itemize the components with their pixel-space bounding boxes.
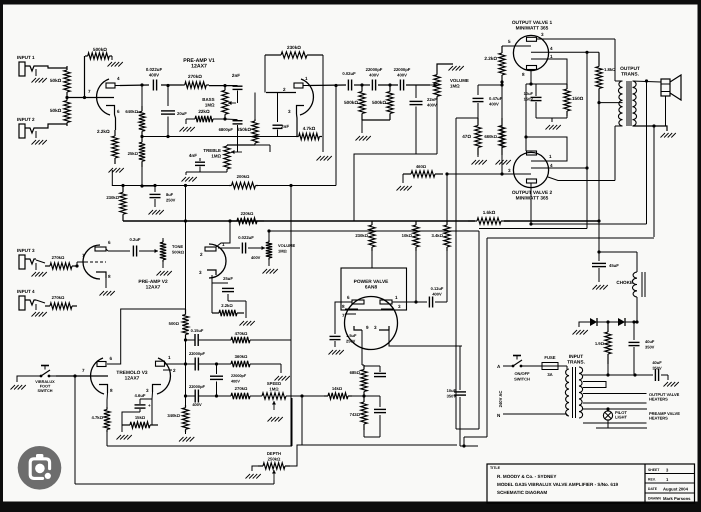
- svg-text:1: 1: [168, 355, 171, 360]
- wire osc plate feed: [107, 309, 186, 364]
- wire vol2 top: [267, 229, 270, 240]
- wire cc1: [354, 83, 370, 86]
- wire 456 corner: [456, 118, 478, 429]
- V1a plate: [106, 83, 115, 88]
- wire A stub: [502, 366, 504, 372]
- output valve 2 title: [512, 190, 553, 201]
- resistor 230k pv: [355, 221, 375, 251]
- V1b plate lead: [303, 85, 308, 87]
- wire cc3: [406, 84, 430, 86]
- node 364 398: [362, 394, 365, 397]
- svg-text:4nF: 4nF: [189, 153, 197, 158]
- pot VOLUME 1M main: [430, 72, 469, 99]
- wire 477 to 502: [478, 83, 504, 86]
- svg-text:2: 2: [173, 368, 176, 373]
- svg-text:0.15uF: 0.15uF: [191, 328, 204, 333]
- ground 340k: [179, 432, 194, 442]
- svg-text:3: 3: [508, 168, 511, 173]
- wire cap pv c1 top: [362, 346, 380, 372]
- wire in3 to grid: [77, 262, 88, 266]
- mains A terminal: [497, 364, 506, 369]
- wire V3 loop bottom: [107, 398, 292, 446]
- wire 416 down: [415, 251, 417, 302]
- wire cc2: [378, 83, 398, 86]
- V5 pin 4 label: [550, 163, 553, 168]
- svg-text:400V: 400V: [427, 102, 437, 107]
- svg-text:4: 4: [117, 76, 120, 81]
- resistor 500k shuntA: [344, 85, 365, 120]
- svg-text:14kΩ: 14kΩ: [332, 386, 343, 391]
- fuse F1: [528, 355, 558, 377]
- svg-text:350V: 350V: [645, 344, 655, 349]
- resistor 340k v3: [167, 405, 188, 432]
- pilot leads: [596, 407, 647, 428]
- resistor 500k feedback: [85, 47, 112, 59]
- resistor 743ohm: [350, 396, 368, 430]
- svg-text:10uF: 10uF: [447, 388, 457, 393]
- resistor 200k bus: [229, 174, 258, 189]
- speaker SP1: [661, 75, 681, 100]
- bottom black border bar: [0, 502, 701, 512]
- triode V2b envelope: [209, 244, 226, 278]
- svg-text:0.022uF: 0.022uF: [146, 67, 163, 72]
- output transformer label: [620, 66, 640, 77]
- svg-text:360kΩ: 360kΩ: [235, 354, 248, 359]
- resistor 685ohm: [350, 365, 368, 396]
- svg-text:+: +: [148, 403, 151, 408]
- svg-text:VOLUME: VOLUME: [278, 243, 295, 248]
- svg-text:640kΩ: 640kΩ: [125, 109, 138, 114]
- preamp valve heaters label: [649, 411, 680, 421]
- V4 cathode rect: [527, 66, 537, 70]
- svg-text:SWITCH: SWITCH: [38, 389, 53, 393]
- svg-text:230kΩ: 230kΩ: [355, 233, 368, 238]
- svg-text:INPUT: INPUT: [569, 354, 583, 360]
- V2b plate: [205, 247, 219, 251]
- svg-text:TONE: TONE: [172, 244, 183, 249]
- capacitor 4nF: [189, 153, 227, 172]
- title text schematic: [497, 490, 547, 495]
- node osc mid: [215, 362, 218, 365]
- svg-text:240V AC: 240V AC: [498, 391, 503, 408]
- svg-text:2.2kΩ: 2.2kΩ: [221, 303, 233, 308]
- wire y446 right: [388, 445, 530, 447]
- bus B+ main: [123, 220, 599, 222]
- vibrato foot switch: [34, 366, 56, 393]
- ground 323: [317, 137, 332, 161]
- title block outer box: [487, 464, 695, 503]
- capacitor 2nF treble: [232, 73, 243, 89]
- svg-text:3A: 3A: [547, 372, 552, 377]
- on/off label: [514, 371, 530, 381]
- title block divider: [644, 464, 646, 503]
- capacitor 20uF: [161, 84, 187, 138]
- svg-text:50kΩ: 50kΩ: [50, 108, 62, 113]
- svg-text:200kΩ: 200kΩ: [237, 174, 250, 179]
- svg-text:1: 1: [395, 295, 398, 300]
- svg-text:2: 2: [200, 252, 203, 257]
- wire cath loop: [106, 432, 108, 446]
- lens icon lens dot: [35, 464, 45, 474]
- resistor 1.9ohm ht: [595, 322, 611, 364]
- svg-text:2nF: 2nF: [232, 73, 240, 78]
- ground jack3: [30, 263, 47, 277]
- svg-text:500Ω: 500Ω: [169, 321, 180, 326]
- V5 plate rect: [527, 151, 537, 155]
- svg-text:ON/OFF: ON/OFF: [514, 371, 530, 376]
- svg-text:DRAWN: DRAWN: [648, 497, 661, 501]
- svg-text:400V: 400V: [251, 255, 261, 260]
- wire cap bottom: [536, 102, 567, 118]
- wire PV cath right: [389, 330, 462, 346]
- capacitor 0.12uF 400V: [416, 286, 447, 308]
- svg-text:0.2uF: 0.2uF: [130, 237, 141, 242]
- svg-text:10kΩ: 10kΩ: [402, 233, 413, 238]
- V2b grid: [200, 252, 209, 257]
- resistor 1.6k bus: [468, 210, 510, 224]
- svg-text:6800pF: 6800pF: [219, 127, 234, 132]
- svg-text:460Ω: 460Ω: [416, 164, 427, 169]
- wire depth wiper: [75, 480, 274, 484]
- vertical 587: [585, 52, 588, 228]
- input jack J4: [19, 296, 36, 310]
- title block rows: [645, 474, 695, 494]
- V1a cathode: [106, 106, 120, 115]
- V5 plate loop: [526, 137, 567, 161]
- V2a cathode gnd: [100, 278, 115, 296]
- date row: [648, 487, 689, 492]
- wire 340k top: [185, 396, 187, 405]
- wire PV plate L: [332, 296, 358, 334]
- choke label: [616, 280, 633, 285]
- ground 15k: [117, 425, 132, 440]
- V2b cathode: [199, 270, 216, 275]
- svg-text:0.022uF: 0.022uF: [238, 235, 254, 240]
- capacitor 0.2uF: [130, 237, 141, 257]
- nest line 1 down: [478, 231, 480, 429]
- wire nest2 bottom: [462, 437, 487, 448]
- wire pv loop right: [380, 436, 464, 438]
- wire PV cath leads: [362, 330, 384, 365]
- capacitor 22000pF t3: [186, 384, 217, 407]
- svg-text:12AX7: 12AX7: [125, 375, 140, 381]
- title text company: [497, 474, 556, 479]
- wire 685 top: [362, 364, 364, 366]
- ground below jack 1: [32, 69, 47, 83]
- capacitor pv c2: [364, 396, 386, 422]
- V2a plate: [95, 247, 108, 251]
- wire V4 pin4 right: [549, 51, 599, 54]
- V4 cathode lead: [530, 70, 532, 85]
- svg-text:6AN8: 6AN8: [365, 284, 378, 290]
- resistor 220k bus inline: [228, 211, 264, 224]
- wire V4 cath to V5 plate: [524, 84, 527, 151]
- wire OPT sec to speaker: [633, 79, 662, 82]
- power valve envelope: [345, 297, 398, 350]
- svg-text:270kΩ: 270kΩ: [52, 255, 65, 260]
- PV plate left: [347, 295, 364, 304]
- svg-text:340kΩ: 340kΩ: [167, 413, 180, 418]
- capacitor 0.022uF v2: [238, 235, 260, 260]
- svg-text:HEATERS: HEATERS: [649, 397, 668, 402]
- svg-text:500kΩ: 500kΩ: [93, 47, 107, 52]
- svg-text:August 2004: August 2004: [663, 487, 689, 492]
- wire V2b cath: [211, 275, 213, 283]
- wire osc low v: [185, 364, 187, 396]
- wire 360k gnd: [250, 364, 281, 373]
- IT primary winding: [565, 369, 569, 416]
- pot DEPTH 250k: [258, 451, 290, 480]
- wire depth right: [290, 445, 302, 466]
- svg-text:1.8kΩ: 1.8kΩ: [604, 67, 616, 72]
- svg-text:400V: 400V: [149, 72, 159, 77]
- V3a pin7: [82, 368, 85, 373]
- wire trem out: [300, 394, 324, 397]
- svg-text:400V: 400V: [489, 101, 499, 106]
- V1a cathode lead: [115, 115, 116, 131]
- capacitor 0.47uF 400V: [473, 85, 503, 118]
- diode D2: [597, 318, 625, 326]
- svg-text:250V: 250V: [346, 338, 356, 343]
- V2a grid dash: [90, 261, 106, 263]
- output valve V4 envelope: [513, 35, 548, 70]
- OPT bottom lead: [615, 125, 623, 127]
- resistor 10k pv: [402, 221, 420, 251]
- svg-text:7: 7: [88, 89, 91, 94]
- nest line 3: [479, 228, 587, 230]
- svg-text:250kΩ: 250kΩ: [268, 456, 281, 461]
- V2a cathode: [96, 272, 111, 279]
- svg-text:DEPTH: DEPTH: [267, 451, 281, 456]
- pre-amp V2 title: [138, 279, 168, 290]
- wire V5 plate to OPT: [548, 126, 615, 181]
- power valve box: [341, 268, 407, 310]
- cath loop box: [208, 283, 212, 305]
- svg-text:4.6uF: 4.6uF: [135, 393, 146, 398]
- PV plate right: [380, 295, 398, 304]
- svg-text:TRANS.: TRANS.: [621, 71, 639, 77]
- svg-text:22000pF: 22000pF: [189, 384, 206, 389]
- svg-text:6: 6: [347, 295, 350, 300]
- wire 10uF bottom: [459, 397, 461, 446]
- svg-text:400V: 400V: [231, 379, 240, 383]
- svg-text:0.47uF: 0.47uF: [489, 96, 503, 101]
- svg-text:7: 7: [342, 313, 345, 318]
- mains N terminal: [497, 413, 501, 418]
- svg-text:3: 3: [199, 270, 202, 275]
- capacitor 6800pF: [219, 119, 243, 132]
- resistor 460ohm: [403, 164, 443, 177]
- wire pvc1: [364, 366, 380, 390]
- resistor 150ohm cath: [564, 84, 584, 116]
- resistor 3.4k pv: [431, 221, 450, 251]
- mains 240V label: [498, 391, 503, 408]
- input jack J3: [19, 255, 36, 269]
- V5 cathode rect: [527, 179, 537, 183]
- wire fuse to IT: [558, 366, 567, 369]
- wire V3a cath: [106, 393, 109, 407]
- wire PV g2: [335, 313, 345, 315]
- node osc 1: [184, 338, 187, 341]
- svg-text:2.2kΩ: 2.2kΩ: [484, 56, 497, 61]
- wire cap to resistor: [161, 84, 182, 86]
- heater winding 1b: [583, 402, 647, 404]
- ground 360k: [275, 376, 290, 381]
- svg-text:250V: 250V: [166, 197, 176, 202]
- input jack J1: [19, 62, 36, 76]
- output valve heaters label: [649, 392, 680, 402]
- triode V3b envelope: [157, 358, 170, 394]
- capacitor 22nF 400V: [410, 85, 438, 111]
- V3b plate lead: [165, 363, 186, 365]
- choke winding: [632, 272, 645, 297]
- svg-text:150V: 150V: [524, 96, 534, 101]
- svg-text:400V: 400V: [192, 402, 202, 407]
- capacitor 1.5uF 250V: [330, 333, 358, 343]
- ground 45uF: [593, 268, 608, 290]
- input jack 3 label: [17, 248, 35, 253]
- wire V1a plate to cap: [120, 84, 149, 87]
- V5 grid3 bar: [513, 173, 531, 175]
- svg-text:SWITCH: SWITCH: [514, 376, 530, 381]
- PV grid2 left: [342, 313, 356, 318]
- V4 pin 5 label: [508, 39, 511, 44]
- svg-text:500kΩ: 500kΩ: [372, 100, 386, 105]
- wire 1.9 bottom: [607, 364, 609, 375]
- wire choke bottom: [636, 297, 638, 322]
- capacitor 22000pF t2: [186, 351, 217, 371]
- V1b cathode: [288, 106, 304, 115]
- svg-text:6: 6: [108, 240, 111, 245]
- svg-text:8: 8: [522, 72, 525, 77]
- V4 pin 8 label: [522, 72, 525, 77]
- OPT center tap: [599, 102, 623, 104]
- resistor 4.7k v3: [91, 407, 110, 432]
- svg-text:6: 6: [117, 109, 120, 114]
- wire V1b plate out: [308, 84, 346, 87]
- svg-text:OUTPUT VALVE 2: OUTPUT VALVE 2: [512, 190, 553, 196]
- node osc 3: [184, 394, 187, 397]
- svg-text:INPUT 2: INPUT 2: [17, 117, 35, 122]
- wire OPT sec tap down: [653, 126, 655, 237]
- V3b grid: [163, 369, 172, 371]
- V5 grid1 bar: [531, 160, 548, 162]
- svg-text:680kΩ: 680kΩ: [484, 134, 497, 139]
- svg-text:1MΩ: 1MΩ: [278, 248, 288, 253]
- capacitor 0.15uF osc: [186, 328, 232, 346]
- svg-text:FUSE: FUSE: [544, 355, 555, 360]
- wire V3b cath: [151, 392, 154, 399]
- svg-text:TREMOLO V3: TREMOLO V3: [116, 370, 148, 376]
- wire 447 down: [446, 174, 448, 221]
- capacitor 10uF 150V: [524, 84, 542, 101]
- svg-text:REV.: REV.: [648, 478, 656, 482]
- V3b cathode: [146, 385, 161, 394]
- svg-text:BASS: BASS: [202, 97, 214, 102]
- svg-text:CHOKE: CHOKE: [616, 280, 633, 285]
- V5 cathode lead: [530, 183, 532, 188]
- PV cathode right: [374, 325, 389, 330]
- ground 500k: [108, 56, 123, 67]
- svg-text:2.2kΩ: 2.2kΩ: [97, 129, 110, 134]
- svg-text:TREBLE: TREBLE: [203, 148, 221, 153]
- svg-text:0.12uF: 0.12uF: [431, 286, 444, 291]
- svg-text:SPEED: SPEED: [267, 381, 281, 386]
- svg-text:8uF: 8uF: [166, 192, 174, 197]
- wire V2a plate: [108, 250, 130, 252]
- triode V2a envelope: [83, 245, 100, 279]
- svg-text:12AX7: 12AX7: [191, 63, 207, 69]
- wire 336 down: [335, 86, 337, 186]
- ground V1a cathode: [109, 168, 124, 173]
- resistor 270k osc: [215, 386, 250, 399]
- svg-text:3: 3: [374, 325, 377, 330]
- ground treble: [182, 172, 201, 182]
- V3b pin2: [173, 368, 176, 373]
- ground diodes: [573, 322, 588, 335]
- resistor 2.2k cathode: [97, 129, 118, 164]
- svg-text:400V: 400V: [369, 72, 379, 77]
- wire volume bottom: [436, 99, 438, 154]
- svg-text:230kΩ: 230kΩ: [287, 45, 301, 50]
- svg-text:1MΩ: 1MΩ: [211, 153, 221, 158]
- svg-text:3: 3: [288, 109, 291, 114]
- capacitor 8uF 250V: [150, 186, 176, 203]
- top black border bar: [0, 0, 701, 5]
- wire V5 cathode to fb: [529, 188, 532, 226]
- OPT primary winding: [618, 81, 622, 126]
- rev row: [648, 477, 669, 482]
- svg-text:22kΩ: 22kΩ: [198, 109, 210, 114]
- svg-text:500kΩ: 500kΩ: [344, 100, 358, 105]
- ground 680k: [496, 155, 511, 165]
- V1b pin 1 label: [305, 76, 308, 81]
- node bass bottom: [223, 117, 226, 120]
- V1b plate: [294, 83, 303, 88]
- svg-text:400V: 400V: [432, 291, 442, 296]
- pot TONE 500k: [160, 238, 185, 262]
- ground foot switch: [11, 376, 35, 390]
- bus mid 186 right: [184, 184, 336, 187]
- nest line 1: [269, 230, 479, 232]
- heater winding 2b: [583, 422, 647, 424]
- vertical osc feed: [184, 186, 187, 310]
- svg-text:230kΩ: 230kΩ: [106, 195, 119, 200]
- wire jack1 to node: [36, 66, 67, 68]
- ground cathode net: [546, 118, 561, 130]
- pot VOLUME 1M v2: [266, 240, 296, 260]
- resistor 270k: [182, 74, 209, 88]
- OPT primary top lead: [615, 80, 623, 82]
- V4 plate wire to OPT: [537, 39, 616, 81]
- V1a pin 4 label: [117, 76, 120, 81]
- svg-text:1MΩ: 1MΩ: [269, 386, 279, 391]
- wire 22nF bottom: [415, 111, 417, 154]
- capacitor 22000pF B: [394, 67, 411, 91]
- wire 230k pv down: [371, 251, 373, 268]
- capacitor 0.022uF 400V: [146, 67, 163, 91]
- svg-text:270kΩ: 270kΩ: [52, 295, 65, 300]
- svg-text:22000pF: 22000pF: [189, 351, 206, 356]
- wire y446 main: [302, 445, 464, 447]
- svg-text:1MΩ: 1MΩ: [450, 83, 460, 88]
- svg-text:22000pF: 22000pF: [394, 67, 411, 72]
- lens icon circle: [18, 446, 62, 490]
- V4 pin 1 label: [550, 54, 553, 59]
- wire y445: [302, 444, 457, 446]
- svg-text:45uF: 45uF: [609, 263, 619, 268]
- V4 grid3 bar: [531, 58, 549, 60]
